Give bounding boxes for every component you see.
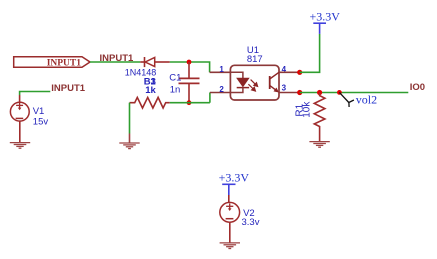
svg-text:INPUT1: INPUT1 [51, 83, 86, 94]
resistor R3 [130, 97, 170, 108]
svg-text:10k: 10k [302, 101, 313, 118]
junction pin3 [297, 90, 302, 95]
port tag INPUT1 [14, 57, 90, 69]
svg-text:1n: 1n [170, 84, 181, 95]
power +3.3V bottom [219, 170, 250, 195]
resistor R1 [314, 93, 325, 142]
svg-text:IO0: IO0 [410, 82, 425, 93]
source V2 [220, 195, 240, 243]
capacitor C1 [179, 62, 200, 103]
wire to U1 pin2 [210, 92, 231, 94]
svg-text:+3.3V: +3.3V [310, 10, 341, 24]
wire R3 to node B [170, 102, 210, 104]
ground below R3 [119, 143, 139, 149]
U1 pin4 lead [279, 71, 300, 73]
junction node B [187, 100, 192, 105]
U1 phototransistor [270, 72, 279, 92]
designator label B3 [144, 76, 157, 87]
ground below V2 [220, 243, 240, 249]
wire pin4 to +3.3V [300, 34, 320, 72]
svg-text:INPUT1: INPUT1 [100, 53, 135, 64]
wire diode to node A [170, 62, 210, 72]
ground below V1 [10, 143, 30, 149]
voltage probe vol2 [339, 92, 354, 107]
ground lead R3 [129, 134, 131, 144]
svg-text:+3.3V: +3.3V [219, 170, 250, 184]
wire V1 to INPUT1 [20, 92, 51, 96]
junction R1 top [317, 90, 322, 95]
svg-text:C1: C1 [169, 72, 181, 83]
wire INPUT1 to diode [90, 61, 140, 63]
wire R3 left to ground [129, 103, 131, 134]
junction probe [337, 90, 342, 95]
svg-text:vol2: vol2 [356, 92, 377, 106]
svg-text:3: 3 [282, 84, 287, 93]
wire node A to U1 pin1 [210, 71, 231, 73]
diode D (1N4148) [140, 57, 170, 67]
ground below R1 [309, 142, 329, 148]
U1 LED light arrows [248, 80, 257, 91]
op-coupler U1 box [230, 65, 279, 100]
svg-text:3.3v: 3.3v [242, 217, 260, 228]
svg-text:2: 2 [219, 85, 224, 94]
svg-text:15v: 15v [33, 117, 49, 128]
U1 pin3 lead [279, 92, 300, 94]
svg-text:INPUT1: INPUT1 [47, 58, 82, 68]
wire pin3 to IO0 [300, 92, 409, 94]
power +3.3V top [310, 10, 341, 34]
junction pin4 [297, 70, 302, 75]
source V1 [10, 95, 29, 143]
svg-text:1: 1 [219, 65, 224, 74]
U1 internal LED [230, 72, 249, 92]
svg-text:817: 817 [247, 54, 263, 65]
junction node A [187, 60, 192, 65]
wire node B up to U1 pin2 [209, 93, 211, 103]
svg-text:1k: 1k [145, 85, 156, 96]
